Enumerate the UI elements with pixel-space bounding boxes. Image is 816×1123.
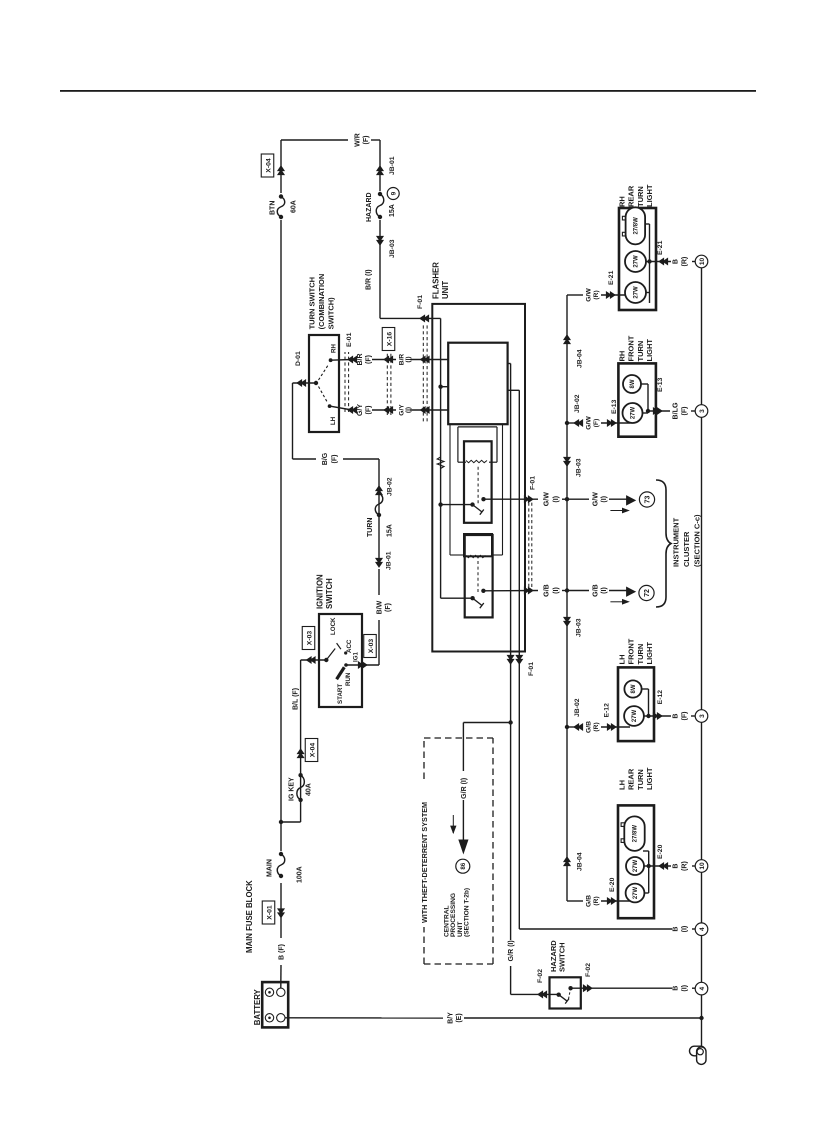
connector D-01 chevrons [297, 380, 302, 386]
svg-text:D-01: D-01 [295, 351, 302, 366]
svg-text:MAIN: MAIN [267, 859, 274, 877]
connector F-01 chevrons (B terminal) [420, 315, 425, 321]
svg-text:4: 4 [699, 986, 706, 990]
svg-text:G/R (I): G/R (I) [461, 778, 468, 799]
connector E-01 dashed lines [344, 352, 346, 412]
svg-text:B/Y: B/Y [448, 1012, 455, 1024]
hazard switch S2 box [550, 977, 581, 1008]
svg-text:60A: 60A [291, 200, 298, 213]
svg-text:RH: RH [618, 351, 627, 362]
wire stub into oscillator [441, 386, 449, 388]
connector E-12 chevrons (output) [657, 713, 662, 719]
terminal circle 4 flasher [695, 923, 708, 936]
svg-text:27W: 27W [632, 709, 638, 722]
svg-text:(I): (I) [552, 587, 560, 594]
fuse BTN 60A [279, 215, 283, 219]
oscillator box in flasher [448, 343, 507, 425]
svg-text:100A: 100A [297, 866, 304, 883]
svg-text:G/Y: G/Y [357, 404, 364, 416]
connector F-01 chevrons G/Y row [421, 407, 426, 413]
bulb 27W LH rear mid [626, 857, 644, 875]
terminal circle 10 RH [695, 255, 708, 268]
svg-text:3: 3 [699, 714, 706, 718]
wire G/B (I) relay2 to bus [483, 590, 538, 592]
svg-text:3: 3 [699, 409, 706, 413]
svg-text:B (F): B (F) [279, 944, 286, 960]
svg-text:4: 4 [699, 927, 706, 931]
svg-text:HAZARD: HAZARD [366, 192, 373, 222]
svg-text:X-04: X-04 [265, 158, 272, 173]
svg-text:B: B [672, 259, 680, 264]
connector X-16 chevrons B/R [384, 356, 389, 362]
svg-text:B/R: B/R [357, 353, 364, 365]
relay 1 fixed contact [481, 497, 485, 501]
svg-text:(I): (I) [680, 925, 688, 932]
svg-text:TURN: TURN [636, 341, 645, 362]
connector F-01 chevrons (G/B) [528, 587, 533, 593]
wire G/Y turn switch LH to flasher [330, 406, 352, 410]
relay 1 contact box [464, 441, 492, 523]
svg-text:(SECTION T-2b): (SECTION T-2b) [463, 888, 470, 937]
svg-text:(I): (I) [552, 495, 560, 502]
connector F-02 chevrons (input) [538, 991, 543, 997]
svg-text:(I): (I) [405, 356, 412, 362]
bulb 27W RH rear inner [625, 282, 646, 303]
svg-text:E-13: E-13 [611, 399, 618, 414]
fuse TURN 15A [377, 513, 381, 517]
svg-text:LIGHT: LIGHT [645, 184, 654, 207]
connector X-03 label (input) [302, 627, 315, 650]
svg-text:X-16: X-16 [386, 332, 393, 347]
svg-text:(I): (I) [680, 984, 688, 991]
svg-text:START: START [337, 684, 344, 704]
relay 2 contact box [465, 535, 493, 617]
svg-text:27W: 27W [633, 859, 639, 872]
turn switch moving contact dashed [319, 365, 329, 381]
svg-text:9: 9 [391, 191, 398, 195]
connector JB-04 chevrons (RH) [564, 335, 570, 340]
terminal circle 10 LH [695, 860, 708, 873]
svg-text:(F): (F) [593, 419, 600, 428]
svg-text:(F): (F) [680, 711, 688, 721]
svg-text:(F): (F) [365, 406, 372, 415]
svg-text:B/LG: B/LG [672, 402, 680, 419]
svg-text:27W: 27W [634, 255, 640, 268]
svg-text:JB-02: JB-02 [387, 477, 394, 496]
svg-text:B: B [672, 926, 680, 931]
svg-text:LIGHT: LIGHT [645, 339, 654, 362]
svg-text:(F): (F) [363, 136, 370, 145]
junction G/W (F) [565, 421, 569, 425]
instrument cluster brace [656, 480, 671, 607]
junction LH rear [647, 864, 651, 868]
connector F-01 dashed lines (outputs) [528, 501, 530, 587]
svg-text:8W: 8W [631, 684, 637, 693]
wire lamp bus [566, 295, 568, 901]
svg-text:(COMBINATION: (COMBINATION [317, 274, 326, 330]
svg-text:BTN: BTN [270, 201, 277, 215]
junction flasher B+ to relay 1 [438, 502, 442, 506]
svg-text:JB-03: JB-03 [576, 458, 583, 477]
LH front turn light box [618, 667, 654, 741]
arrow small cpu [452, 815, 454, 833]
RH rear turn light box [619, 208, 656, 310]
connector E-12 chevrons (input) [611, 724, 616, 730]
flasher internal B+ rail [440, 318, 442, 598]
wire ignition to turn fuse rail [378, 620, 380, 665]
svg-text:WITH THEFT-DETERRENT SYSTEM: WITH THEFT-DETERRENT SYSTEM [420, 802, 429, 923]
svg-text:(I): (I) [405, 407, 412, 413]
LH rear turn light box [618, 805, 654, 918]
svg-text:B: B [672, 863, 680, 868]
wire G/B (R) bus to LH front [567, 726, 583, 728]
connector E-21 chevrons (output) [659, 258, 664, 264]
ignition switch common contact [324, 658, 328, 662]
svg-text:E-20: E-20 [657, 844, 664, 859]
connector E-01 chevrons B/R [348, 356, 353, 362]
svg-text:8W: 8W [630, 379, 636, 388]
connector E-13 chevrons (input) [611, 420, 616, 426]
wire drop into ignition switch [301, 659, 327, 661]
svg-text:IG KEY: IG KEY [289, 777, 296, 801]
bulb 27W RH rear mid [625, 251, 646, 272]
connector F-01 chevrons (G/W) [528, 496, 533, 502]
connector F-01 chevrons (L) [508, 659, 514, 664]
svg-text:E-21: E-21 [657, 240, 664, 255]
junction G/B (R) [565, 725, 569, 729]
svg-text:E-01: E-01 [346, 332, 353, 347]
junction G/B cluster [565, 588, 569, 592]
svg-text:LOCK: LOCK [330, 617, 337, 635]
fuse IG KEY 40A [298, 798, 302, 802]
svg-text:SWITCH: SWITCH [558, 942, 567, 972]
relay 2 pivot [470, 596, 474, 600]
wire B+ rail battery to BTN corner [280, 965, 282, 988]
svg-text:INSTRUMENT: INSTRUMENT [672, 517, 681, 567]
svg-text:IGNITION: IGNITION [316, 574, 325, 609]
svg-text:G/B: G/B [543, 584, 551, 597]
bulb 27W RH front [623, 403, 643, 423]
RH front turn light box [618, 363, 656, 436]
svg-text:G/B: G/B [592, 584, 600, 597]
CPU dashed box with title [423, 927, 425, 964]
arrow to circle 72 [627, 587, 636, 596]
svg-text:LIGHT: LIGHT [645, 767, 654, 790]
svg-text:REAR: REAR [627, 768, 636, 790]
connector X-03 chevrons (input) [307, 657, 312, 663]
svg-text:F-01: F-01 [530, 476, 537, 490]
svg-text:JB-01: JB-01 [386, 551, 393, 570]
fuse HAZARD 15A [378, 215, 382, 219]
connector F-02 chevrons (output) [587, 985, 592, 991]
svg-text:G/W: G/W [543, 492, 551, 506]
terminal circle 86 [456, 859, 470, 873]
LH rear internal wiring [644, 892, 648, 894]
svg-text:B/G: B/G [322, 452, 329, 465]
turn switch LH contact [328, 404, 332, 408]
relay 2 arm [473, 598, 482, 605]
svg-text:(R): (R) [680, 860, 688, 870]
wire G/W (F) bus to RH front [567, 422, 583, 424]
connector E-21 chevrons (input) [610, 292, 615, 298]
svg-text:RUN: RUN [345, 672, 352, 686]
svg-text:F-01: F-01 [528, 662, 535, 676]
connector X-16 dashed lines [386, 352, 388, 415]
hazard switch pivot [557, 993, 561, 997]
svg-text:10: 10 [699, 258, 706, 266]
connector F-01 chevrons (E) [516, 659, 522, 664]
svg-text:LH: LH [330, 416, 337, 425]
svg-text:(F): (F) [680, 406, 688, 416]
svg-text:G/W: G/W [586, 288, 593, 302]
svg-text:40A: 40A [306, 783, 313, 796]
wire hazard fuse branch [379, 220, 381, 318]
svg-text:JB-04: JB-04 [577, 349, 584, 368]
wire flasher L terminal [508, 363, 511, 365]
svg-text:(R): (R) [593, 722, 600, 731]
svg-text:G/B: G/B [586, 895, 593, 907]
bulb 27W LH rear inner [626, 884, 645, 903]
bulb 8W RH front [623, 375, 641, 393]
connector X-03 label (output) [364, 635, 377, 658]
svg-text:JB-04: JB-04 [577, 852, 584, 871]
wire G/W (R) bus to RH rear [567, 294, 583, 296]
bulb 27/8W LH rear [624, 816, 644, 851]
wire flasher E to ground [519, 928, 672, 930]
svg-text:72: 72 [644, 589, 651, 597]
svg-text:27W: 27W [633, 886, 639, 899]
connector JB-02 chevrons (turn fuse) [376, 486, 382, 491]
svg-text:E-20: E-20 [609, 877, 616, 892]
relay 1 dashed link [477, 465, 479, 504]
fuse MAIN 100A [279, 874, 283, 878]
relay 2 pivot feed [441, 597, 473, 599]
terminal circle 72 [639, 585, 654, 600]
svg-text:B/W: B/W [377, 600, 384, 614]
svg-text:73: 73 [644, 496, 651, 504]
svg-text:E-12: E-12 [604, 703, 611, 718]
bulb 8W LH front [624, 680, 641, 697]
ignition switch contact lever [337, 643, 341, 649]
junction G/R node [508, 720, 512, 724]
connector JB-03 chevrons (hazard) [377, 240, 383, 245]
svg-text:(F): (F) [385, 603, 392, 612]
svg-text:TURN SWITCH: TURN SWITCH [308, 277, 317, 330]
wire B/LG (F) to ground [648, 410, 670, 412]
relay 1 pivot [470, 502, 474, 506]
svg-text:G/R (I): G/R (I) [508, 940, 515, 961]
connector E-20 chevrons (output) [659, 863, 664, 869]
svg-text:TURN: TURN [367, 518, 374, 537]
junction RH rear [647, 259, 651, 263]
wire drop to turn switch common [293, 382, 317, 384]
svg-text:X-01: X-01 [266, 905, 273, 920]
wire G/W (I) relay1 to bus [484, 498, 539, 500]
connector X-16 label [382, 328, 395, 351]
wire corner W/R to hazard branch [281, 139, 348, 141]
wire B/Y battery to ground bus [285, 1017, 443, 1019]
junction flasher B+ to oscillator [438, 385, 442, 389]
circuit number 9 [387, 188, 399, 200]
arrow small 72 [610, 601, 623, 603]
svg-text:RH: RH [618, 196, 627, 207]
svg-text:TURN: TURN [636, 769, 645, 790]
svg-text:(E): (E) [456, 1013, 463, 1022]
terminal circle 3 RH [695, 405, 708, 418]
svg-text:SWITCH: SWITCH [325, 578, 334, 609]
connector X-16 chevrons G/Y [384, 407, 389, 413]
svg-text:27/8W: 27/8W [633, 825, 639, 843]
svg-text:SWITCH): SWITCH) [327, 297, 336, 330]
wire B/G turn fuse to turn switch [343, 458, 379, 460]
terminal circle 73 [639, 492, 654, 507]
svg-text:E-12: E-12 [657, 690, 664, 705]
junction G/W cluster [565, 497, 569, 501]
svg-text:G/W: G/W [592, 492, 600, 506]
RH rear internal wiring [649, 224, 651, 303]
turn switch common pivot [314, 381, 318, 385]
svg-text:X-03: X-03 [306, 631, 313, 646]
svg-text:IG1: IG1 [353, 651, 360, 662]
svg-text:MAIN FUSE BLOCK: MAIN FUSE BLOCK [245, 880, 254, 953]
svg-text:86: 86 [460, 862, 467, 869]
svg-text:FRONT: FRONT [627, 335, 636, 361]
svg-text:JB-03: JB-03 [389, 239, 396, 258]
relay 2 dashed link [477, 558, 479, 592]
connector X-03 chevrons (output) [362, 662, 367, 668]
junction main fuse block [279, 820, 283, 824]
connector JB-03 chevrons (RH) [564, 461, 570, 466]
svg-text:LH: LH [618, 655, 627, 665]
turn switch RH contact [329, 358, 333, 362]
svg-text:E-13: E-13 [657, 377, 664, 392]
connector X-01 chevrons [278, 913, 284, 918]
bulb 27/8W RH rear [626, 207, 646, 244]
svg-text:BATTERY: BATTERY [253, 988, 262, 1025]
relay 1 pivot feed [441, 504, 473, 506]
wire flasher E terminal [508, 389, 520, 391]
wire G/R arrow into CPU [462, 800, 464, 841]
svg-text:10: 10 [699, 862, 706, 870]
svg-text:ACC: ACC [346, 639, 353, 653]
svg-text:27/8W: 27/8W [634, 217, 640, 235]
connector X-04 label (IG KEY) [305, 739, 318, 762]
resistor R1 in flasher [437, 457, 444, 469]
connector JB-01 chevrons (turn fuse) [376, 562, 382, 567]
svg-text:X-04: X-04 [309, 743, 316, 758]
hazard switch arm [559, 995, 568, 1002]
wire G/R to hazard switch [510, 723, 512, 941]
svg-text:27W: 27W [634, 286, 640, 299]
relay 1 arm [473, 505, 483, 512]
relay 1 coil core [457, 427, 459, 462]
wire B (R) RH rear to ground [650, 261, 672, 263]
connector F-01 chevrons B/R row [421, 356, 426, 362]
flasher unit box [432, 304, 525, 652]
svg-text:JB-02: JB-02 [574, 698, 581, 717]
svg-text:15A: 15A [387, 524, 394, 537]
connector JB-01 chevrons (hazard) [377, 166, 383, 171]
terminal circle 4 hazard [695, 982, 708, 995]
wire G/B (R) bus to LH rear [567, 900, 583, 902]
svg-text:JB-02: JB-02 [574, 394, 581, 413]
relay 2 fixed contact [481, 589, 485, 593]
ignition switch key arm [337, 667, 345, 679]
svg-text:RH: RH [331, 344, 338, 353]
connector X-04 label (BTN) [261, 154, 274, 177]
svg-text:(F): (F) [365, 355, 372, 364]
svg-text:E-21: E-21 [608, 270, 615, 285]
ground symbol [690, 1046, 706, 1056]
connector JB-02 chevrons (RH front) [574, 420, 579, 426]
svg-text:(R): (R) [593, 896, 600, 905]
svg-text:JB-01: JB-01 [389, 156, 396, 175]
terminal circle 3 LH [695, 710, 708, 723]
svg-text:CLUSTER: CLUSTER [682, 531, 691, 567]
svg-text:(I): (I) [600, 587, 608, 594]
junction RH front [646, 409, 650, 413]
bulb 27W LH front [624, 706, 644, 726]
connector JB-03 chevrons (mid) [564, 621, 570, 626]
arrow to circle 73 [627, 496, 636, 505]
turn switch S1 box [309, 335, 339, 432]
wire B (F) to ground [649, 715, 672, 717]
svg-text:B: B [672, 986, 680, 991]
wire B/R turn switch RH to flasher [331, 359, 352, 362]
battery [262, 982, 288, 1027]
svg-text:B/L (F): B/L (F) [293, 688, 300, 710]
wire G/W to cluster [567, 498, 589, 500]
connector E-20 chevrons (input) [611, 898, 616, 904]
wire hazard switch to ground circle [571, 987, 672, 989]
svg-text:FLASHER: FLASHER [432, 262, 441, 299]
svg-text:TURN: TURN [636, 186, 645, 207]
connector F-01 dashed lines (inputs) [422, 323, 424, 421]
svg-text:(I): (I) [600, 495, 608, 502]
svg-text:(F): (F) [332, 455, 339, 464]
svg-text:JB-03: JB-03 [576, 618, 583, 637]
svg-text:LIGHT: LIGHT [645, 642, 654, 665]
connector E-01 chevrons G/Y [348, 407, 353, 413]
svg-text:TURN: TURN [636, 644, 645, 665]
connector X-01 label [262, 901, 275, 924]
arrow small 73 [610, 510, 623, 512]
wire ignition output IG1 [346, 664, 379, 666]
svg-text:27W: 27W [631, 406, 637, 419]
svg-text:X-03: X-03 [368, 639, 375, 654]
connector X-04 chevrons (BTN) [278, 166, 284, 171]
junction B/Y ground [699, 1016, 703, 1020]
connector E-13 chevrons (output) [657, 408, 662, 414]
svg-text:REAR: REAR [627, 185, 636, 207]
svg-text:B: B [672, 713, 680, 718]
connector JB-04 chevrons (LH) [564, 857, 570, 862]
wire B (R) LH rear to ground [649, 865, 671, 867]
connector JB-02 chevrons (LH front) [574, 724, 579, 730]
wire G/B to cluster [567, 590, 589, 592]
svg-text:B/R (I): B/R (I) [365, 269, 372, 290]
RH front internal wiring [643, 412, 649, 414]
connector X-04 chevrons (IG KEY) [298, 749, 304, 754]
relay 2 feed channel [449, 424, 451, 555]
page header rule [60, 90, 756, 92]
svg-text:W/R: W/R [354, 133, 361, 147]
hazard switch output contact [568, 986, 572, 990]
svg-text:F-02: F-02 [537, 969, 544, 983]
LH front internal wiring [644, 715, 649, 717]
wire G/R to CPU [463, 722, 510, 724]
hazard switch dashed link [569, 990, 571, 1000]
